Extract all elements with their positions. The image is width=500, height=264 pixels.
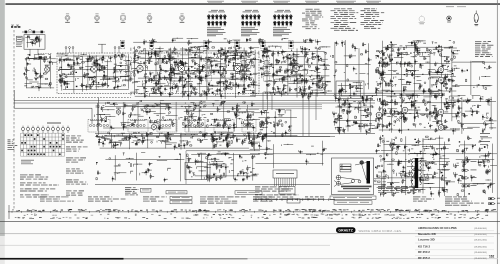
annotation column	[143, 197, 167, 202]
table heading 1	[207, 0, 224, 3]
audio output right wiring	[456, 95, 497, 134]
switch matrix caption left	[8, 140, 18, 150]
dial cord path	[334, 163, 367, 187]
long rail lower band	[95, 133, 375, 135]
svg-text:(19-508-300): (19-508-300)	[474, 228, 487, 230]
FM front end wiring	[57, 54, 130, 93]
annotation column	[88, 197, 126, 202]
svg-text:(19-049-300): (19-049-300)	[474, 258, 487, 260]
tube socket diagram V1 (top view)	[65, 15, 70, 20]
anode supply rails	[250, 92, 445, 94]
IF transformer T5	[261, 41, 265, 49]
coil winding table 1	[207, 10, 227, 36]
annotation column	[305, 197, 324, 200]
dial cord pulleys	[360, 161, 364, 165]
IF can K5	[291, 57, 297, 81]
voltage notes paragraph	[255, 187, 291, 192]
DIN connector plug 5	[489, 198, 496, 200]
small box right of band	[287, 199, 300, 203]
measurement note text	[125, 187, 139, 195]
left bus wire 2	[8, 205, 10, 219]
detector secondary wiring	[259, 109, 298, 138]
Graetz logo	[336, 227, 356, 233]
DIN connector plug 3	[462, 177, 469, 179]
ratio detector feed wiring	[330, 40, 371, 95]
IF can K2	[206, 57, 212, 81]
tone control wiring lower	[96, 153, 184, 183]
tuning indicator EM84 box	[336, 81, 364, 99]
tone control wiring upper	[96, 131, 260, 150]
tuning indicator wiring	[338, 82, 363, 97]
switch matrix frame	[20, 133, 22, 156]
separator rule 2	[0, 233, 500, 235]
stereo note column	[475, 41, 493, 57]
component reference band marks	[299, 209, 300, 212]
loudspeaker field wiring	[453, 136, 497, 197]
svg-text:(19-048-300): (19-048-300)	[474, 252, 487, 254]
label IU.T	[11, 26, 13, 28]
right scan edge line	[496, 0, 498, 264]
IF amplifier stage 1 wiring	[129, 46, 260, 100]
detector / AF wiring	[95, 100, 178, 131]
DIN connector plug 2	[462, 169, 469, 171]
antenna terminals	[65, 47, 67, 49]
left bus wire	[13, 30, 15, 209]
table heading 3	[273, 0, 290, 3]
tone section divider	[186, 150, 260, 152]
coil pack box 4	[185, 120, 205, 133]
IF can K3	[241, 57, 247, 81]
tube envelope V2	[91, 66, 97, 72]
tube side-view symbol top right	[474, 13, 478, 22]
connector strip	[273, 170, 297, 178]
tube envelope V1	[45, 67, 50, 72]
dashed chassis line	[28, 97, 131, 99]
antenna block caption lines	[16, 42, 23, 45]
annotation column	[413, 197, 434, 202]
dial cord drum bar	[367, 161, 371, 184]
model list separators	[415, 230, 494, 232]
svg-text:(19-080-300): (19-080-300)	[474, 246, 487, 248]
svg-text:(19-031-300): (19-031-300)	[474, 240, 487, 242]
transformer notes block	[378, 186, 421, 193]
tube envelope V5	[234, 65, 240, 71]
boxed label 1	[170, 196, 192, 199]
tube socket diagram V4 (top view)	[147, 15, 152, 20]
DIN connector plug 4	[462, 185, 469, 187]
svg-text:KS 716 2: KS 716 2	[418, 244, 430, 248]
note above legend	[446, 5, 454, 8]
AF amplifier wiring	[179, 101, 260, 132]
boxed label 2	[170, 201, 192, 204]
IF transformer T4	[235, 41, 239, 49]
long wire to switch bank	[14, 107, 92, 109]
antenna input terminals	[11, 25, 19, 28]
tube socket diagram V3 (top view)	[120, 16, 125, 20]
table heading 2	[241, 0, 258, 3]
coil winding table 2	[241, 10, 261, 36]
FM dipole symbol	[101, 44, 103, 53]
tube envelope V8	[116, 110, 120, 114]
audio driver wiring	[375, 40, 460, 134]
svg-text:(19-030-300): (19-030-300)	[474, 234, 487, 236]
AVC rail	[14, 100, 375, 102]
coil pack box 2	[128, 120, 148, 133]
svg-text:GRAETZ: GRAETZ	[338, 229, 353, 233]
DIN connector plug 6	[489, 203, 496, 205]
DIN connector plug 1	[462, 161, 469, 163]
AM antenna block frame	[24, 35, 45, 50]
pushbutton linkage line	[253, 199, 335, 201]
boxed label (printed circuit)	[235, 191, 262, 194]
AM antenna block interior	[24, 36, 42, 48]
svg-text:RF 255 2: RF 255 2	[418, 256, 430, 260]
IF amplifier stage 2 wiring	[259, 46, 332, 101]
tone control wiring mid	[187, 152, 260, 183]
annotation column	[445, 197, 484, 206]
legend text column 3	[361, 8, 385, 28]
mains transformer windings	[411, 159, 413, 162]
pushbutton switch bank	[21, 127, 24, 130]
IF can K1	[126, 57, 132, 81]
speaker feed wiring	[450, 59, 496, 95]
tube socket diagram V2 (top view)	[95, 15, 100, 20]
annotation column	[200, 197, 246, 204]
output tube V6	[438, 77, 444, 83]
tube socket (grey outline) top right	[419, 16, 425, 22]
switch matrix contacts	[24, 134, 26, 136]
output tube V5	[438, 67, 444, 73]
dial box outside parts right	[378, 176, 381, 177]
bottom black bar	[0, 258, 124, 260]
separator rule 1	[0, 221, 500, 223]
tube envelope V4	[178, 65, 184, 71]
parts list left	[20, 175, 48, 180]
dial cord caption	[338, 190, 371, 193]
tube envelope V7	[151, 124, 156, 129]
coil pack box 6	[242, 120, 256, 133]
screen supply verticals	[302, 96, 304, 136]
IF transformer T6	[289, 41, 293, 49]
tuner enclosure outline	[57, 53, 259, 94]
reference band ticks	[11, 211, 13, 213]
heater bus wires	[132, 104, 322, 106]
pickup box	[279, 187, 295, 195]
alignment boxed label	[166, 191, 187, 194]
coil winding table 3	[273, 10, 293, 36]
page edge grey strip	[0, 0, 5, 236]
antenna coupling components	[25, 31, 28, 34]
legend text column 1	[302, 9, 323, 29]
notes column mid-left	[66, 136, 84, 143]
output tube V9	[402, 107, 408, 113]
IF transformer T1	[120, 41, 124, 49]
tuning indicator / rectifier cluster	[333, 95, 378, 135]
coil pack box 3	[157, 120, 177, 133]
separator rule 3	[0, 244, 330, 246]
tube envelope V3	[137, 65, 143, 71]
table heading 5	[336, 0, 356, 3]
svg-text:AM/FM-CHASSIS CD 100 LPWS: AM/FM-CHASSIS CD 100 LPWS	[418, 226, 457, 230]
IF strip top edge wiring	[133, 38, 321, 46]
tone switch box	[185, 163, 207, 180]
dial cord diagram box	[332, 158, 374, 195]
svg-text:Locarno 3/D: Locarno 3/D	[418, 238, 435, 242]
output tube V7	[438, 109, 444, 115]
IF transformer T3	[204, 41, 208, 49]
output tube V10	[376, 112, 382, 118]
block drop wires	[29, 49, 31, 56]
reference band rule	[8, 211, 497, 213]
boxed label 3 (Tonband)	[330, 196, 376, 199]
tube envelope V6	[293, 65, 299, 71]
boxed label 4 (Antennen)	[334, 201, 372, 204]
coil pack box 5	[214, 120, 234, 133]
legend text column 2	[331, 8, 359, 30]
IF can K4	[264, 57, 270, 81]
annotation column	[40, 197, 74, 202]
top border rule	[6, 3, 500, 5]
speaker connector symbols	[480, 132, 490, 135]
antenna trimmer	[33, 40, 36, 43]
tube socket diagram V5 (top view)	[180, 15, 185, 20]
rectifier cluster	[248, 132, 272, 153]
svg-text:Mandello 3/D: Mandello 3/D	[418, 232, 436, 236]
mains transformer core	[415, 158, 418, 188]
IF transformer T2	[149, 41, 153, 49]
dial pointer lamp stack	[340, 164, 351, 166]
measurement box	[141, 188, 152, 192]
output tube V8	[438, 125, 444, 131]
table heading 4	[305, 0, 319, 3]
output stage lower wiring	[374, 135, 455, 197]
tube socket small top right	[447, 16, 451, 20]
coil pack box 1	[88, 120, 110, 133]
svg-text:162: 162	[489, 255, 495, 259]
table heading 6	[366, 0, 381, 3]
svg-text:WERKE GMBH KOMM.-GES.: WERKE GMBH KOMM.-GES.	[359, 229, 403, 233]
svg-text:RF 250 2: RF 250 2	[418, 250, 430, 254]
dial cord label strip	[341, 186, 372, 188]
annotation column	[253, 197, 273, 202]
AM oscillator wiring	[24, 54, 58, 91]
small switch box left	[17, 36, 23, 41]
power supply wiring	[256, 141, 327, 169]
switch matrix footnote	[21, 159, 34, 162]
